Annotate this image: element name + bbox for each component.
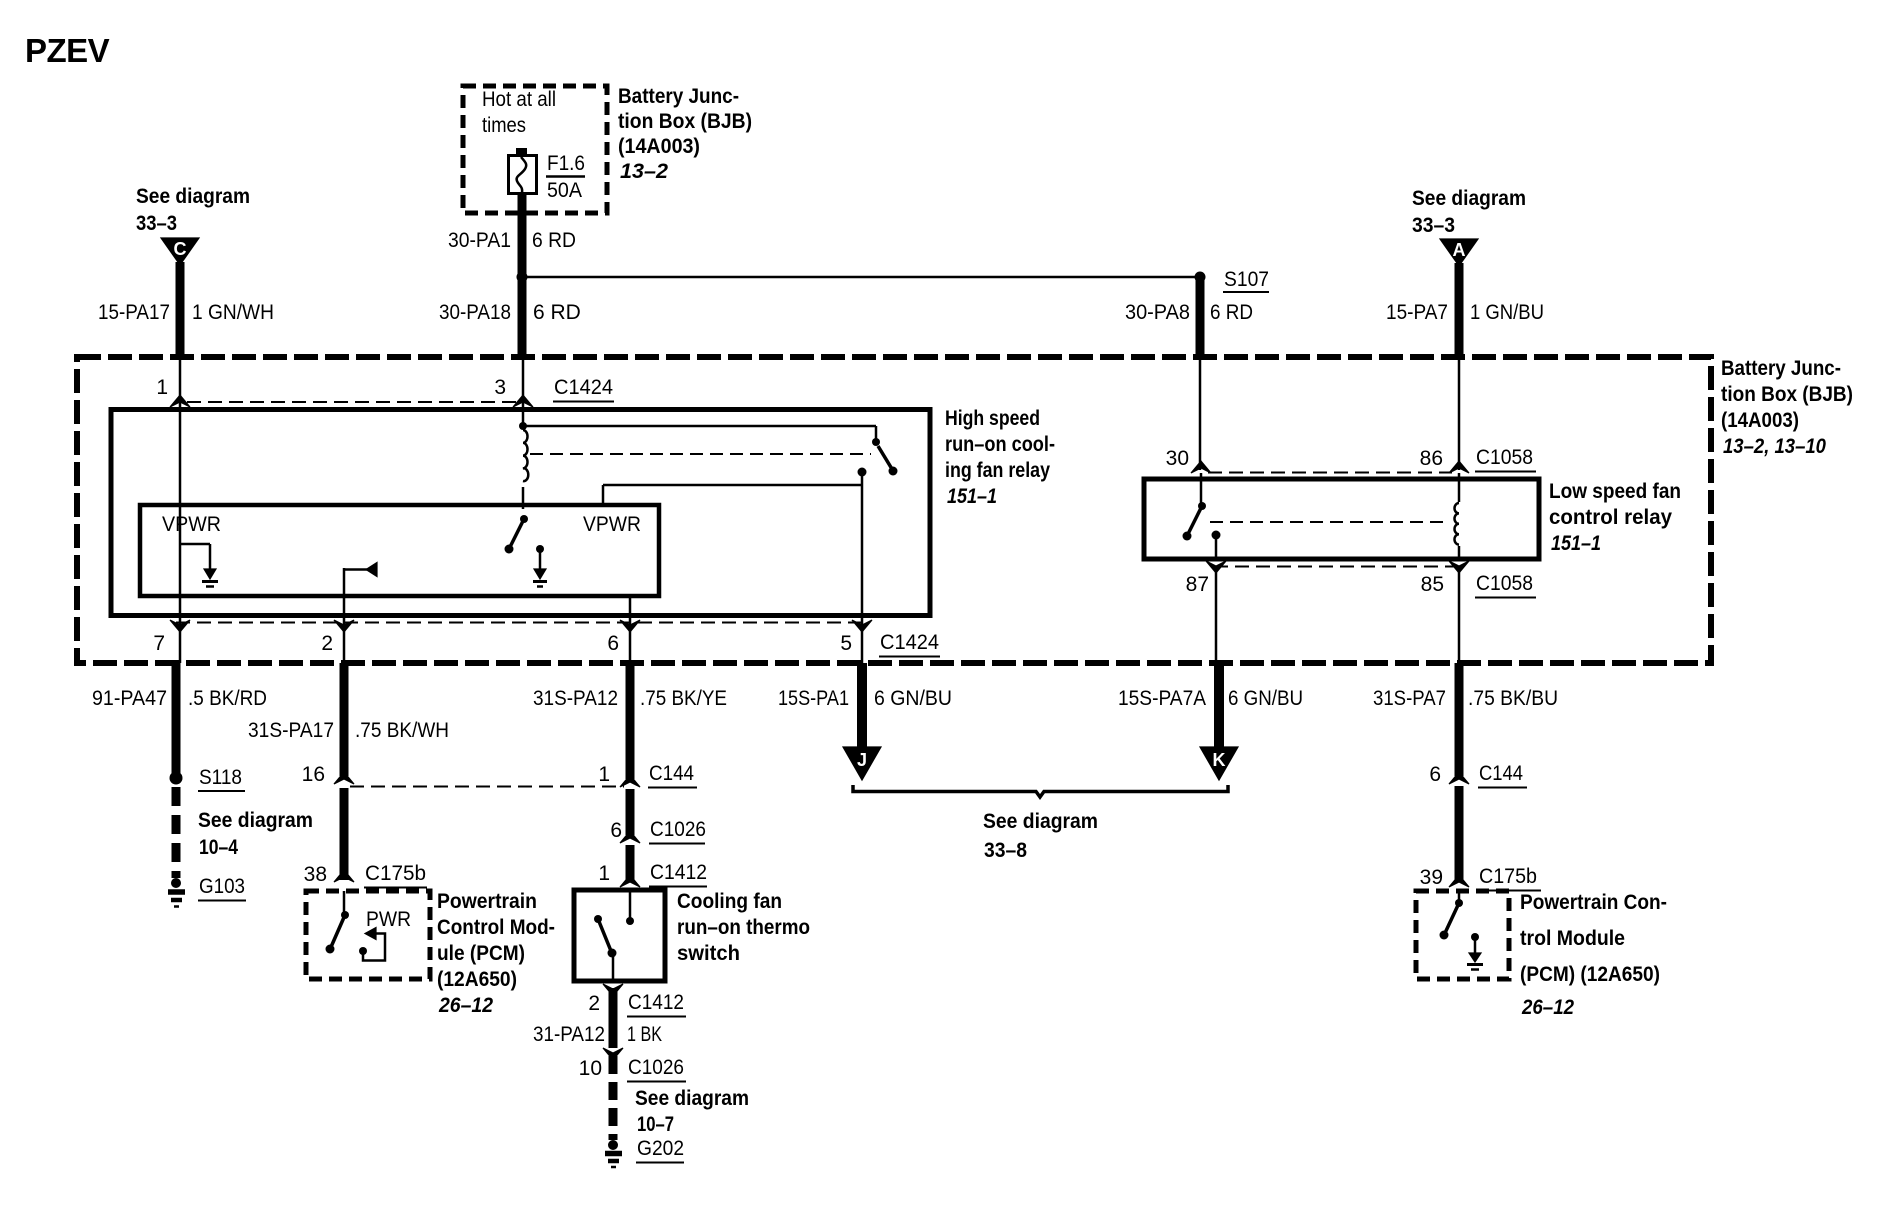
relay switch arm (high speed, NO) [878, 446, 898, 476]
svg-text:.75 BK/WH: .75 BK/WH [355, 719, 449, 742]
svg-text:1 BK: 1 BK [627, 1023, 662, 1046]
svg-text:C1026: C1026 [650, 818, 706, 841]
low speed relay coil [1454, 473, 1459, 559]
connector C175b pin 39 arrow + label (right) [1420, 865, 1541, 891]
wire pin1 to VPWR (inside relay) [179, 404, 182, 596]
connector C1424 pin 7 arrow [153, 620, 190, 655]
svg-text:15S-PA7A: 15S-PA7A [1118, 687, 1206, 710]
wire 15S-PA7A 6 GN/BU (pin 87 to K) [1118, 663, 1303, 750]
relay mech linkage (dashed) [530, 453, 871, 455]
svg-text:16: 16 [302, 763, 325, 786]
svg-text:.5 BK/RD: .5 BK/RD [188, 687, 267, 710]
svg-text:30-PA8: 30-PA8 [1125, 301, 1190, 324]
svg-text:6: 6 [1429, 763, 1441, 786]
svg-text:PWR: PWR [366, 908, 411, 931]
svg-text:6 GN/BU: 6 GN/BU [874, 687, 952, 710]
low speed relay switch output to pin 87 [1212, 531, 1221, 560]
connector C1058 pin 87 arrow [1186, 561, 1226, 596]
svg-text:trol Module: trol Module [1520, 927, 1625, 950]
thermo switch contact (pin 1 side) [626, 890, 634, 925]
svg-text:tion Box (BJB): tion Box (BJB) [618, 110, 752, 133]
connector C1412 pin 2 arrow + label [588, 984, 686, 1017]
svg-text:C144: C144 [1479, 762, 1523, 785]
wire pin 87 to BJB edge [1215, 566, 1218, 663]
PCM switch (left) [326, 891, 350, 954]
svg-text:C1424: C1424 [554, 376, 613, 399]
wire pin16 to pin38 [340, 788, 349, 880]
svg-text:85: 85 [1421, 573, 1444, 596]
svg-text:6: 6 [610, 819, 622, 842]
connector C1058 dashed line (top) [1208, 472, 1452, 474]
relay switch (inside VPWR area, on coil line) [505, 515, 529, 554]
svg-text:Powertrain Con-: Powertrain Con- [1520, 891, 1667, 914]
svg-text:C1026: C1026 [628, 1056, 684, 1079]
low speed relay switch [1183, 473, 1207, 541]
hot at all times feed box (dashed) [463, 86, 607, 213]
wire 31-PA12 1 BK [533, 988, 662, 1048]
high speed relay label [945, 407, 1055, 508]
svg-text:See diagram: See diagram [198, 809, 313, 832]
svg-text:.75 BK/YE: .75 BK/YE [640, 687, 727, 710]
svg-text:F1.6: F1.6 [547, 152, 585, 175]
svg-text:See diagram: See diagram [136, 185, 250, 208]
wire A to pin 86 (inside BJB) [1458, 357, 1461, 470]
svg-text:Hot at all: Hot at all [482, 88, 556, 111]
connector C1058 pin 85 arrow + label [1421, 561, 1536, 598]
wire splice branch to S107 [522, 268, 1269, 292]
svg-text:6: 6 [607, 632, 619, 655]
connector C1424 pin 6 arrow [607, 620, 640, 655]
svg-text:5: 5 [840, 632, 852, 655]
svg-text:30-PA18: 30-PA18 [439, 301, 511, 324]
relay switch feed line (pin3 to contact) [523, 426, 880, 446]
svg-text:3: 3 [494, 376, 506, 399]
svg-text:run–on thermo: run–on thermo [677, 916, 810, 939]
wire C1026 to C1412 [626, 845, 635, 880]
svg-text:C175b: C175b [365, 862, 426, 885]
connector J (off-page arrow) [843, 747, 881, 780]
connector C1424 pin 2 arrow [321, 620, 354, 655]
svg-text:See diagram: See diagram [635, 1087, 749, 1110]
wire S107 to pin 30 (inside BJB) [1199, 357, 1202, 470]
svg-text:151–1: 151–1 [947, 485, 997, 508]
connector C1058 pin 30 arrow [1166, 447, 1211, 473]
svg-text:Low speed fan: Low speed fan [1549, 480, 1681, 503]
svg-text:13–2, 13–10: 13–2, 13–10 [1723, 435, 1826, 458]
wire branch to right VPWR [603, 485, 862, 507]
svg-text:Control Mod-: Control Mod- [437, 916, 555, 939]
wire pin 7 segment below VPWR [179, 596, 182, 663]
connector C1424 dashed line (top) [187, 401, 516, 403]
connector C1058 dashed line (bottom) [1214, 566, 1460, 568]
PCM switch (right) [1440, 891, 1464, 940]
splice S107 junction dot [517, 272, 528, 283]
svg-text:C1412: C1412 [650, 861, 707, 884]
svg-text:run–on cool-: run–on cool- [945, 433, 1055, 456]
svg-text:(PCM) (12A650): (PCM) (12A650) [1520, 963, 1660, 986]
wire pin 5 segment below relay [861, 616, 864, 663]
svg-text:G103: G103 [199, 875, 245, 898]
svg-text:7: 7 [153, 632, 165, 655]
wire 15-PA17 1 GN/WH (connector C to BJB) [98, 262, 274, 357]
svg-text:J: J [857, 750, 867, 770]
svg-text:Battery Junc-: Battery Junc- [1721, 357, 1841, 380]
VPWR terminal box [140, 505, 659, 596]
svg-text:10: 10 [579, 1057, 602, 1080]
svg-text:C175b: C175b [1479, 865, 1537, 888]
svg-text:31S-PA7: 31S-PA7 [1373, 687, 1446, 710]
svg-text:91-PA47: 91-PA47 [92, 687, 167, 710]
svg-text:A: A [1453, 240, 1466, 260]
svg-text:1: 1 [598, 763, 610, 786]
connector C144 pin 1 arrow + label [598, 762, 697, 788]
svg-text:15-PA17: 15-PA17 [98, 301, 170, 324]
svg-text:C1424: C1424 [880, 631, 939, 654]
svg-text:15S-PA1: 15S-PA1 [778, 687, 849, 710]
svg-text:26–12: 26–12 [1521, 996, 1574, 1019]
see diagram 33-8 label [983, 810, 1098, 862]
title PZEV [25, 32, 110, 69]
wire pin 85 to BJB edge [1458, 566, 1461, 663]
svg-text:50A: 50A [547, 179, 582, 202]
ground G202 [605, 1137, 684, 1167]
PCM label (right) [1520, 891, 1667, 1019]
low speed relay label [1549, 480, 1681, 555]
wire to G202 (dashed) [613, 1056, 749, 1140]
svg-text:.75 BK/BU: .75 BK/BU [1468, 687, 1558, 710]
svg-text:See diagram: See diagram [983, 810, 1098, 833]
wire 31S-PA17 .75 BK/WH (pin 2 to pin 16) [248, 663, 449, 776]
wire 15-PA7 1 GN/BU (connector A to BJB) [1386, 263, 1544, 357]
svg-text:C1058: C1058 [1476, 572, 1533, 595]
svg-text:(14A003): (14A003) [618, 135, 700, 158]
svg-text:13–2: 13–2 [620, 160, 668, 183]
svg-text:PZEV: PZEV [25, 32, 110, 69]
svg-text:86: 86 [1420, 447, 1443, 470]
svg-text:30: 30 [1166, 447, 1189, 470]
connector C (see diagram 33-3) [136, 185, 250, 265]
dashed link pin16 to C144 [350, 786, 624, 788]
svg-text:33–3: 33–3 [136, 212, 177, 235]
svg-text:151–1: 151–1 [1551, 532, 1601, 555]
svg-text:See diagram: See diagram [1412, 187, 1526, 210]
svg-text:10–7: 10–7 [637, 1113, 674, 1136]
battery junction box label (top) [618, 85, 752, 183]
wire 91-PA47 .5 BK/RD (pin 7 to S118) [92, 663, 267, 778]
svg-text:2: 2 [588, 992, 600, 1015]
svg-text:S107: S107 [1224, 268, 1269, 291]
svg-text:times: times [482, 114, 526, 137]
ground G103 [168, 875, 246, 907]
wire pin 6 (VPWR box to BJB edge) [629, 596, 632, 663]
VPWR tap (right) [533, 545, 547, 587]
svg-text:2: 2 [321, 632, 333, 655]
svg-text:30-PA1: 30-PA1 [448, 229, 511, 252]
connector K (off-page arrow) [1200, 747, 1238, 780]
svg-text:31-PA12: 31-PA12 [533, 1023, 605, 1046]
svg-text:31S-PA17: 31S-PA17 [248, 719, 334, 742]
connector C1026 pin 10 arrow + label [579, 1048, 686, 1082]
VPWR tap (left) [180, 544, 218, 587]
battery junction box BJB (large dashed box) [77, 357, 1711, 663]
connector C1058 pin 86 arrow + label [1420, 446, 1536, 473]
svg-text:1: 1 [156, 376, 168, 399]
cooling fan run-on thermo switch box [574, 890, 665, 981]
connector A (see diagram 33-3) [1412, 187, 1526, 266]
svg-text:1 GN/BU: 1 GN/BU [1470, 301, 1544, 324]
fuse F1.6 50A [509, 148, 586, 202]
powertrain control module box (right, dashed) [1416, 891, 1509, 979]
svg-text:Cooling fan: Cooling fan [677, 890, 782, 913]
wire switch output to pin 5 [858, 468, 867, 617]
thermo switch label [677, 890, 810, 965]
connector C1424 dashed line (bottom) [176, 622, 864, 624]
svg-text:ule (PCM): ule (PCM) [437, 942, 525, 965]
wire 15S-PA1 6 GN/BU (pin 5 to J) [778, 663, 952, 750]
splice S118 [170, 766, 246, 791]
svg-text:6 RD: 6 RD [1210, 301, 1253, 324]
PWR symbol [359, 908, 411, 961]
svg-text:C1412: C1412 [628, 991, 684, 1014]
svg-text:(14A003): (14A003) [1721, 409, 1799, 432]
svg-text:33–3: 33–3 [1412, 214, 1455, 237]
svg-text:Battery Junc-: Battery Junc- [618, 85, 739, 108]
svg-text:switch: switch [677, 942, 740, 965]
svg-text:K: K [1213, 750, 1226, 770]
svg-text:6 GN/BU: 6 GN/BU [1228, 687, 1303, 710]
svg-text:15-PA7: 15-PA7 [1386, 301, 1448, 324]
connector pin 16 arrow [302, 763, 354, 786]
svg-text:(12A650): (12A650) [437, 968, 517, 991]
svg-text:S118: S118 [199, 766, 242, 789]
svg-text:38: 38 [304, 863, 327, 886]
battery junction box label (right) [1721, 357, 1853, 458]
high speed run-on cooling fan relay box [111, 410, 930, 616]
low speed relay mech linkage (dashed) [1210, 521, 1448, 523]
low speed fan control relay box [1144, 479, 1539, 559]
PCM ground tap (right) [1467, 933, 1483, 970]
connector C1424 pin 5 arrow + label [840, 620, 940, 657]
powertrain control module box (left, dashed) [306, 891, 430, 979]
svg-text:C: C [174, 239, 187, 259]
wire 30-PA1 6 RD (fuse to splice S107) [448, 193, 576, 357]
svg-text:26–12: 26–12 [438, 994, 493, 1017]
svg-text:control relay: control relay [1549, 506, 1672, 529]
connector C175b pin 38 arrow + label [304, 862, 427, 888]
connector C144 pin 6 arrow + label (right) [1429, 762, 1527, 788]
svg-text:33–8: 33–8 [984, 839, 1027, 862]
wire S118 to G103 (dashed) [176, 787, 313, 878]
svg-text:6 RD: 6 RD [533, 301, 581, 324]
svg-text:C144: C144 [649, 762, 694, 785]
wire 31S-PA12 .75 BK/YE (pin 6 to C144) [533, 663, 727, 779]
svg-text:39: 39 [1420, 866, 1443, 889]
svg-text:6 RD: 6 RD [532, 229, 576, 252]
svg-text:1 GN/WH: 1 GN/WH [192, 301, 274, 324]
connector C1424 pin 3 (arrow + label) [494, 357, 614, 407]
svg-text:VPWR: VPWR [162, 513, 221, 536]
wire 30-PA18 6 RD label [439, 301, 581, 324]
wire C144 to C175b (right) [1455, 786, 1464, 880]
svg-text:Powertrain: Powertrain [437, 890, 537, 913]
svg-text:VPWR: VPWR [583, 513, 641, 536]
svg-text:10–4: 10–4 [199, 836, 238, 859]
connector C1026 pin 6 arrow + label [610, 818, 706, 844]
wire 31S-PA7 .75 BK/BU (pin 85 to C144) [1373, 663, 1558, 776]
pin 2 output symbol (arrow) [344, 563, 377, 597]
connector C1424 pin 1 (arrow + wire into relay) [156, 357, 190, 407]
svg-text:tion Box (BJB): tion Box (BJB) [1721, 383, 1853, 406]
connector C1412 pin 1 arrow + label [598, 861, 707, 887]
wire 30-PA8 6 RD (S107 down to BJB) [1125, 277, 1253, 357]
svg-text:C1058: C1058 [1476, 446, 1533, 469]
svg-text:G202: G202 [637, 1137, 684, 1160]
svg-text:High speed: High speed [945, 407, 1040, 430]
wire C144 to C1026 [626, 789, 635, 835]
svg-text:87: 87 [1186, 573, 1209, 596]
PCM label (left) [437, 890, 555, 1017]
brace under J and K [853, 785, 1228, 797]
thermo switch arm [594, 915, 617, 981]
relay coil (high speed) [519, 404, 528, 509]
svg-text:ing fan relay: ing fan relay [945, 459, 1050, 482]
svg-text:31S-PA12: 31S-PA12 [533, 687, 618, 710]
svg-text:1: 1 [598, 862, 610, 885]
wire pin 2 segment below VPWR [343, 596, 346, 663]
